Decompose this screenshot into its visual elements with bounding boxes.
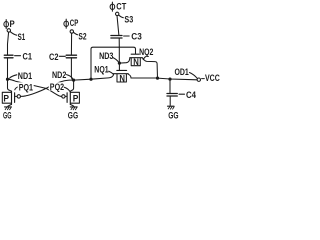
wire phi-CP to C2	[70, 33, 72, 55]
svg-text:P: P	[3, 93, 9, 104]
wire C2 to node ND2	[71, 58, 73, 80]
leader ND2	[67, 75, 73, 79]
transistor NQ2 (N-channel, box style)	[131, 53, 139, 55]
wire NQ2 drain to OD1 node	[142, 58, 157, 78]
wire ND1 to PQ1 drain	[8, 79, 12, 91]
transistor PQ1 (P-channel, box style)	[2, 92, 11, 103]
node ND1	[6, 78, 9, 81]
svg-text:C2: C2	[49, 52, 59, 62]
leader OD1	[190, 73, 198, 79]
label C1	[15, 55, 21, 57]
PQ1 source to ground	[8, 104, 12, 106]
label PQ1	[18, 82, 34, 91]
node ND3-rail junction	[89, 78, 92, 81]
svg-text:P: P	[73, 93, 79, 104]
leader PQ2	[64, 87, 70, 91]
wire ND3 rail (C3 line)	[91, 47, 136, 79]
capacitor C3	[111, 35, 122, 37]
ground GG (left)	[5, 106, 12, 108]
svg-text:N: N	[119, 74, 125, 85]
svg-text:ND3: ND3	[99, 51, 113, 61]
wire ND3 to NQ2 source	[119, 58, 129, 63]
wire OD1 bus	[131, 77, 158, 79]
svg-text:C3: C3	[131, 31, 142, 41]
leader PQ1	[15, 87, 18, 90]
wire phi-CT to C3	[117, 16, 119, 36]
ground GG (right)	[168, 105, 175, 107]
wire cross-couple A: ND1 to PQ2 gate	[8, 79, 62, 96]
label C4	[179, 93, 185, 95]
PQ2 source to ground	[70, 104, 74, 106]
wire ND2 rail to NQ1 source	[74, 74, 114, 80]
PQ1 gate bubble	[15, 95, 17, 97]
wire ND2 to PQ2 drain	[70, 80, 73, 91]
PQ2 gate bar	[66, 93, 68, 103]
svg-text:CP: CP	[70, 18, 79, 28]
leader NQ2	[143, 56, 147, 60]
svg-text:S3: S3	[124, 15, 133, 25]
wire ND3 to NQ1 gate	[118, 63, 120, 70]
PQ1 channel bar	[11, 91, 13, 104]
transistor NQ1 (N-channel, box style)	[117, 69, 127, 71]
svg-text:ND1: ND1	[18, 71, 32, 81]
svg-text:S1: S1	[18, 32, 26, 42]
wire C4 to ground	[169, 96, 171, 105]
label -VCC	[202, 78, 205, 80]
leader S1	[10, 32, 16, 35]
leader S3	[119, 15, 124, 18]
svg-text:PQ2: PQ2	[50, 82, 64, 92]
svg-text:P: P	[10, 19, 15, 29]
capacitor C1	[4, 54, 13, 56]
svg-text:C4: C4	[186, 90, 197, 100]
ground GG (middle)	[70, 106, 77, 108]
PQ1 gate bar	[14, 93, 16, 103]
transistor PQ2 (P-channel, box style)	[71, 92, 80, 103]
PQ2 channel bar	[69, 91, 71, 104]
wire C3 to ND3 rail	[118, 38, 120, 47]
svg-text:GG: GG	[168, 111, 178, 120]
label phi-P	[4, 22, 9, 27]
wire phi-P to C1	[8, 32, 9, 55]
label phi-CP	[64, 21, 69, 26]
svg-text:PQ1: PQ1	[19, 82, 33, 92]
svg-text:N: N	[133, 57, 139, 68]
terminal -VCC output	[197, 78, 200, 81]
svg-text:VCC: VCC	[205, 73, 220, 83]
terminal S3 (phi-CT input)	[116, 12, 119, 15]
node ND2	[72, 79, 75, 82]
leader S2	[73, 32, 77, 34]
svg-text:OD1: OD1	[175, 67, 189, 77]
label PQ2	[49, 82, 65, 90]
svg-text:CT: CT	[116, 1, 126, 11]
capacitor C2	[66, 54, 76, 56]
node C4 tap	[168, 78, 171, 81]
svg-text:GG: GG	[68, 111, 78, 120]
label phi-CT	[110, 4, 115, 9]
svg-text:NQ1: NQ1	[94, 65, 108, 75]
leader NQ1	[109, 71, 114, 74]
terminal S1 (phi-P input)	[7, 29, 10, 32]
wire cross-couple B: ND2 to PQ1 gate	[21, 80, 74, 96]
wire OD1 node to VCC terminal	[158, 78, 198, 80]
leader ND1	[10, 75, 17, 78]
PQ2 gate bubble	[65, 95, 67, 97]
wire NQ1 drain to OD1 bus	[128, 74, 131, 78]
svg-text:GG: GG	[3, 110, 12, 120]
svg-text:S2: S2	[78, 31, 86, 41]
leader ND3	[113, 58, 119, 62]
svg-text:NQ2: NQ2	[139, 47, 153, 57]
node OD1-NQ2	[156, 77, 159, 80]
label C3	[124, 35, 130, 37]
svg-text:ND2: ND2	[52, 70, 66, 80]
node ND3	[118, 47, 120, 63]
svg-text:C1: C1	[23, 52, 33, 62]
terminal S2 (phi-CP input)	[70, 30, 73, 33]
wire C1 to node ND1	[7, 58, 9, 79]
capacitor C4	[167, 93, 177, 95]
wire C4 tap down	[169, 79, 171, 93]
